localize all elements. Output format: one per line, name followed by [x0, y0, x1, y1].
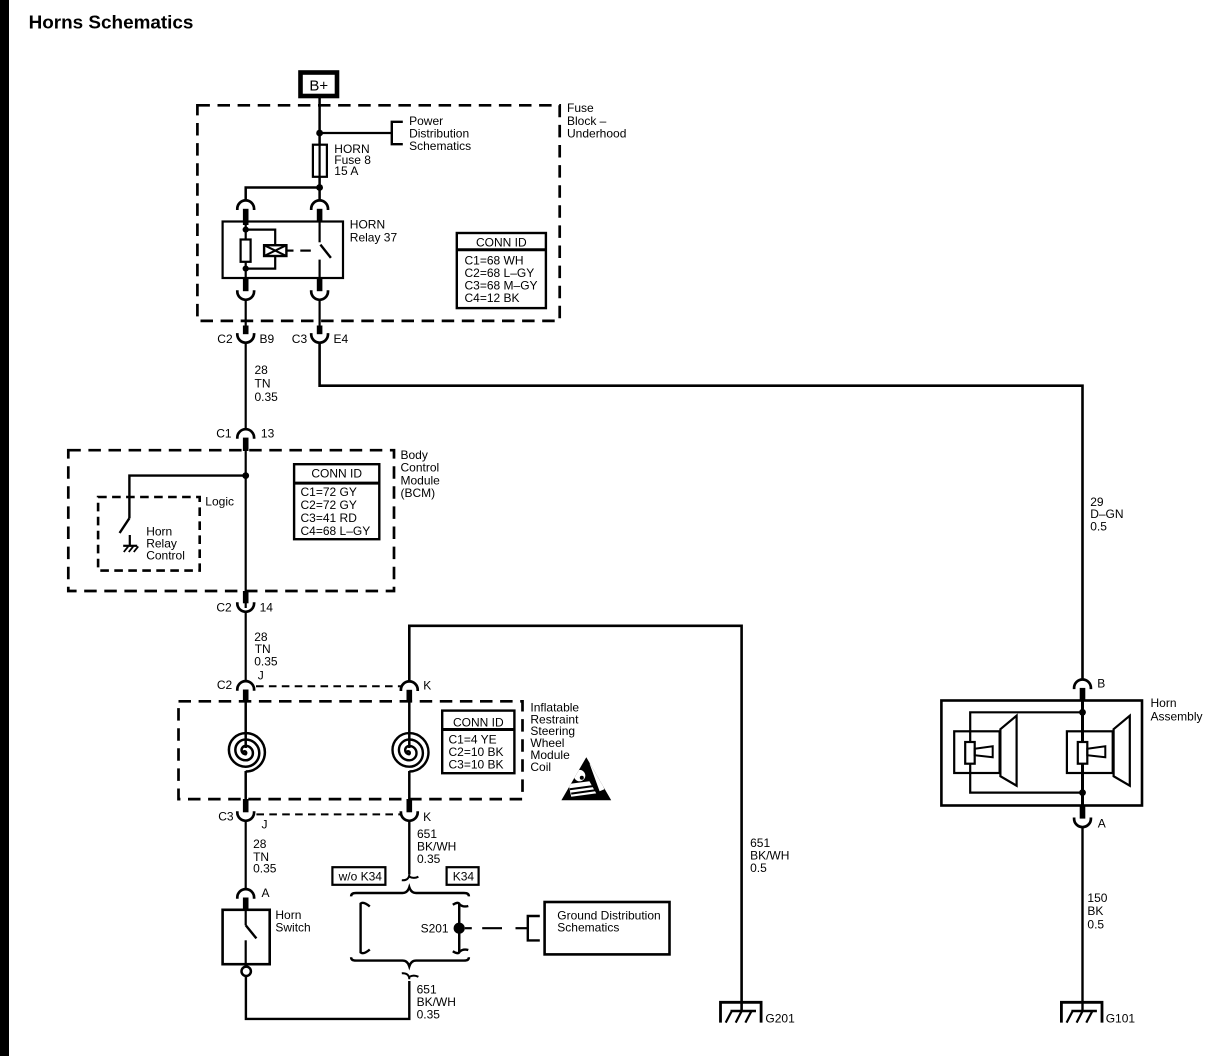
connector K lower male: [406, 799, 412, 812]
wire relay coil loop: [246, 230, 276, 269]
wire relay coil bottom lead: [245, 262, 247, 278]
svg-text:Horn: Horn: [1151, 696, 1177, 710]
wire end curl lower: [402, 973, 419, 979]
value label circuit 28 TN 0.35: [254, 630, 278, 669]
svg-text:C2: C2: [217, 678, 233, 692]
wire end curl upper: [402, 874, 419, 880]
svg-text:28: 28: [255, 363, 269, 377]
svg-text:G201: G201: [765, 1011, 795, 1025]
value label circuit 651 BK/WH 0.35: [417, 983, 456, 1022]
svg-text:Underhood: Underhood: [567, 127, 626, 141]
reference bracket ground distribution: [528, 916, 540, 940]
label C2: [217, 678, 233, 692]
brace lower: [351, 957, 469, 966]
label HORN Relay 37: [350, 217, 398, 244]
svg-text:C3=10 BK: C3=10 BK: [449, 757, 504, 771]
SIR warning symbol: [561, 757, 611, 800]
relay terminal 85 male pin: [243, 278, 249, 291]
label C1: [216, 427, 232, 441]
node power distribution tap junction: [316, 130, 323, 137]
node relay feed junction: [316, 184, 323, 191]
connector K female: [401, 681, 418, 691]
svg-text:S201: S201: [421, 921, 449, 935]
conn id table fuse block: [457, 233, 546, 308]
svg-text:CONN ID: CONN ID: [476, 236, 527, 250]
label C2: [217, 332, 233, 346]
connector C3 pin J female: [237, 811, 254, 821]
wire BCM C2-14 to coil C2-J: [245, 612, 247, 681]
svg-text:0.35: 0.35: [417, 1007, 441, 1021]
logic dashed box: [98, 497, 200, 571]
brace upper: [351, 887, 469, 896]
ground horn relay control: [123, 535, 138, 552]
relay terminal 30 female: [311, 200, 328, 210]
node logic branch junction: [242, 472, 249, 479]
svg-text:0.5: 0.5: [1087, 917, 1104, 931]
value label circuit 651 BK/WH 0.5: [750, 836, 789, 875]
label G101: [1106, 1011, 1136, 1025]
connector C2 pin 14 female: [237, 602, 254, 612]
wire K to splice section: [408, 821, 410, 875]
connector C2 pin B9 male: [243, 326, 249, 335]
wire horn assembly main: [1081, 701, 1084, 806]
svg-text:C4=12 BK: C4=12 BK: [465, 291, 520, 305]
svg-text:0.35: 0.35: [417, 852, 441, 866]
svg-text:HORN: HORN: [350, 217, 385, 231]
label Horn Relay Control: [146, 525, 185, 563]
wire horn switch to splice riser: [246, 976, 409, 1019]
relay switch lower contact: [319, 260, 321, 278]
wire relay coil top lead: [245, 230, 247, 240]
label HORN Fuse 8 15 A: [334, 142, 371, 178]
label Horn Assembly: [1151, 696, 1203, 723]
connector C2 pin J male: [243, 690, 249, 703]
horn left: [954, 716, 1016, 786]
fuse block dashed outline: [197, 105, 559, 321]
label pin B9: [260, 332, 275, 346]
svg-text:C3: C3: [292, 332, 308, 346]
label J: [258, 668, 264, 682]
relay switch upper contact: [319, 222, 321, 243]
wire branch to relay coil side: [246, 188, 320, 201]
value label circuit 28 TN 0.35: [253, 837, 277, 876]
relay terminal 87 female: [311, 290, 328, 300]
label S201: [421, 921, 449, 935]
svg-text:0.35: 0.35: [253, 862, 277, 876]
relay coil winding resistor: [241, 240, 251, 262]
BCM dashed outline: [68, 450, 394, 591]
value label circuit 29 D-GN 0.5: [1090, 495, 1123, 534]
connector K male: [406, 690, 412, 703]
horn relay control switch blade: [120, 518, 130, 533]
node horn parallel top: [1079, 709, 1086, 716]
svg-text:TN: TN: [255, 377, 271, 391]
svg-text:w/o K34: w/o K34: [338, 870, 383, 884]
connector B female: [1074, 680, 1091, 690]
conn id table SIR coil: [442, 711, 514, 774]
conn id table BCM: [294, 464, 379, 539]
label pin A: [262, 886, 270, 900]
relay terminal 86 male pin: [243, 209, 249, 230]
svg-text:Relay 37: Relay 37: [350, 231, 398, 245]
svg-text:13: 13: [261, 427, 275, 441]
node relay coil bottom: [243, 266, 249, 272]
value label circuit 651 BK/WH 0.35: [417, 827, 456, 866]
horn switch blade: [246, 925, 257, 938]
connector C1 pin 13 male: [243, 438, 249, 451]
svg-text:C3: C3: [218, 810, 234, 824]
ground G201: [721, 1002, 762, 1022]
label J: [262, 818, 268, 832]
horn switch output terminal: [242, 967, 251, 976]
svg-text:BK: BK: [1087, 904, 1103, 918]
clockspring coil right: [392, 733, 428, 771]
label Body Control Module (BCM): [401, 448, 441, 500]
relay terminal 30 male pin: [317, 209, 323, 223]
svg-text:15 A: 15 A: [334, 164, 358, 178]
wire B+ feed: [318, 96, 321, 145]
connector K lower female: [401, 811, 418, 821]
svg-text:28: 28: [253, 837, 267, 851]
value label circuit 150 BK 0.5: [1087, 891, 1107, 932]
svg-text:Schematics: Schematics: [557, 921, 619, 935]
option tag K34: [447, 867, 479, 885]
node horn parallel bottom: [1079, 789, 1086, 796]
label Logic: [205, 494, 234, 508]
wire to horn relay control logic: [129, 476, 245, 519]
wire out of right clockspring: [408, 771, 411, 801]
svg-text:14: 14: [260, 601, 274, 615]
reference box Ground Distribution Schematics: [545, 902, 670, 954]
relay switch blade: [320, 245, 331, 258]
connector C2 pin J female: [237, 681, 254, 691]
dashed mechanical link: [300, 250, 311, 252]
wire C1-13 into BCM: [245, 451, 247, 608]
wire armature link: [286, 250, 293, 252]
branch without K34: [361, 903, 370, 953]
label pin 14: [260, 601, 274, 615]
svg-text:A: A: [1098, 816, 1106, 830]
wire K branch header: [409, 626, 741, 1011]
svg-text:C4=68 L–GY: C4=68 L–GY: [301, 524, 371, 538]
label Power Distribution Schematics: [409, 114, 471, 153]
wire C2-B9 to BCM C1-13: [245, 343, 247, 430]
connector A lower female: [1074, 818, 1091, 828]
horn switch outline: [223, 910, 270, 964]
value label circuit 28 TN 0.35: [255, 363, 279, 404]
svg-text:C2: C2: [216, 601, 232, 615]
svg-text:J: J: [258, 668, 264, 682]
label C3: [292, 332, 308, 346]
svg-text:Switch: Switch: [275, 920, 310, 934]
svg-text:CONN ID: CONN ID: [311, 466, 362, 480]
svg-text:A: A: [262, 886, 270, 900]
svg-text:Assembly: Assembly: [1151, 709, 1203, 723]
svg-text:0.5: 0.5: [1090, 519, 1107, 533]
wire C3-J to horn switch A: [245, 821, 247, 889]
fuse HORN Fuse 8 15A: [313, 145, 327, 177]
power symbol B+: [301, 73, 338, 97]
relay terminal 87 male pin: [317, 278, 323, 291]
label Horn Switch: [275, 908, 310, 934]
svg-text:C3=41 RD: C3=41 RD: [301, 511, 358, 525]
svg-text:Schematics: Schematics: [409, 139, 471, 153]
wire horn assembly to G101: [1081, 827, 1083, 1011]
relay K37 HORN Relay 37 outline: [223, 222, 343, 279]
node relay coil top: [243, 227, 249, 233]
svg-text:Coil: Coil: [530, 760, 551, 774]
svg-text:CONN ID: CONN ID: [453, 716, 504, 730]
svg-text:C1: C1: [216, 427, 232, 441]
svg-text:0.5: 0.5: [750, 861, 767, 875]
label Inflatable Restraint Steering Wheel Module Coil: [530, 700, 579, 774]
clockspring coil left: [229, 733, 265, 771]
svg-text:(BCM): (BCM): [401, 486, 436, 500]
svg-text:E4: E4: [334, 332, 349, 346]
label K: [423, 810, 431, 824]
connector C3 pin E4 male: [317, 326, 323, 335]
label pin E4: [334, 332, 349, 346]
svg-text:Horns Schematics: Horns Schematics: [29, 13, 194, 34]
label K: [423, 678, 431, 692]
splice S201: [454, 923, 465, 934]
label pin 13: [261, 427, 275, 441]
connector C2 pin B9 female: [237, 333, 254, 343]
wire tap to power distribution bracket: [320, 132, 392, 134]
svg-text:K: K: [423, 810, 431, 824]
branch with K34 splice S201: [453, 903, 469, 953]
wire into left clockspring: [244, 703, 247, 749]
dashed reference S201 to ground distribution: [465, 927, 528, 929]
reference bracket power distribution: [392, 122, 403, 144]
svg-text:Control: Control: [146, 549, 185, 563]
ground G101: [1061, 1002, 1102, 1022]
svg-text:K34: K34: [453, 870, 475, 884]
wire into right clockspring: [408, 703, 411, 749]
svg-text:C2: C2: [217, 332, 233, 346]
label G201: [765, 1011, 795, 1025]
connector A lower male: [1080, 806, 1086, 819]
svg-text:Logic: Logic: [205, 494, 234, 508]
relay terminal 86 female: [237, 200, 254, 210]
label Fuse Block - Underhood: [567, 101, 626, 140]
wire horn parallel loop: [970, 712, 1082, 792]
connector C2 pin 14 male: [243, 591, 249, 603]
dashed connector tie C3J to K: [256, 813, 400, 815]
title Horns Schematics: [29, 13, 194, 34]
svg-text:G101: G101: [1106, 1011, 1136, 1025]
svg-text:0.35: 0.35: [255, 390, 279, 404]
svg-text:B+: B+: [309, 78, 328, 95]
option tag w/o K34: [332, 867, 385, 885]
wire relay 87 to C3 pin E4: [319, 300, 321, 326]
svg-text:150: 150: [1087, 891, 1107, 905]
dashed connector tie C2J to K: [256, 685, 401, 687]
wire out of left clockspring: [244, 771, 247, 801]
connector A female: [237, 889, 254, 899]
wire relay 85 to C2 pin B9: [245, 300, 247, 326]
svg-text:C2=72 GY: C2=72 GY: [301, 498, 357, 512]
connector C3 pin E4 female: [311, 333, 328, 343]
connector C3 pin J male: [243, 799, 249, 812]
svg-text:J: J: [262, 818, 268, 832]
connector B male: [1080, 688, 1086, 701]
label A: [1098, 816, 1106, 830]
wire C3-E4 to horn assembly B: [320, 343, 1083, 680]
label C2: [216, 601, 232, 615]
horn switch upper contact: [245, 911, 247, 926]
svg-text:K: K: [423, 678, 431, 692]
connector A male: [243, 898, 249, 911]
horn right: [1067, 716, 1130, 786]
wire fuse to relay: [318, 177, 321, 201]
relay armature crossed box: [264, 245, 286, 256]
relay terminal 85 female: [237, 290, 254, 300]
horn switch lower contact: [245, 940, 247, 964]
connector C1 pin 13 female: [237, 429, 254, 439]
svg-text:0.35: 0.35: [254, 655, 278, 669]
label C3: [218, 810, 234, 824]
svg-text:B9: B9: [260, 332, 275, 346]
SIR coil dashed outline: [179, 701, 523, 799]
svg-text:B: B: [1097, 677, 1105, 691]
label B: [1097, 677, 1105, 691]
horn assembly outline: [941, 701, 1142, 806]
